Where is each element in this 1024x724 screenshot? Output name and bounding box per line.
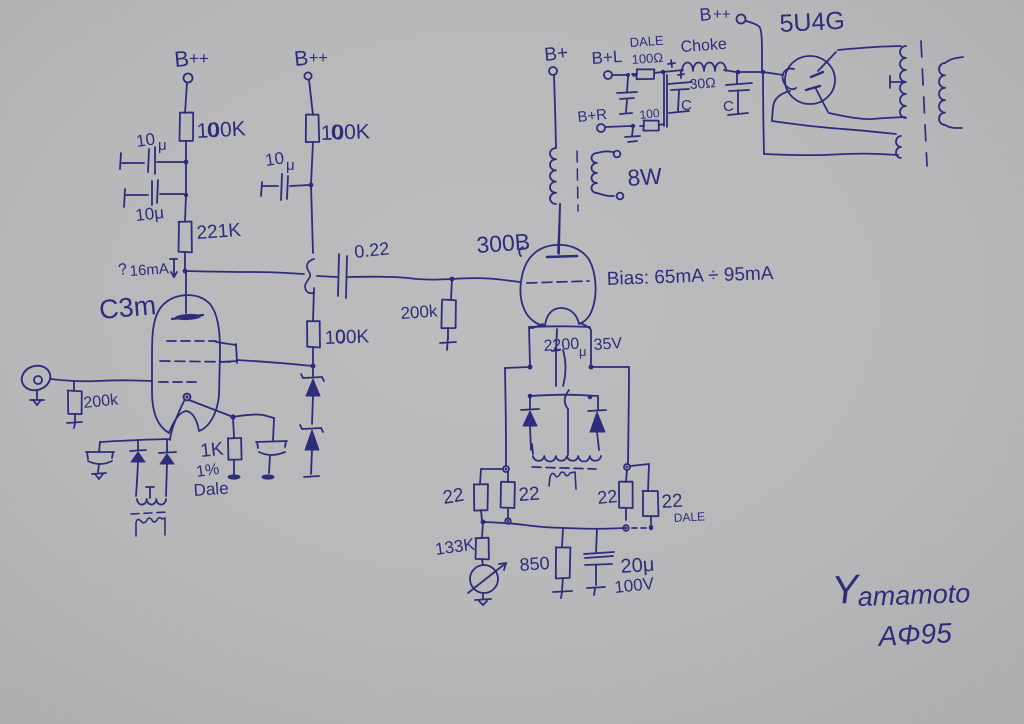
svg-text:C: C: [723, 98, 734, 115]
svg-text:++: ++: [189, 49, 209, 68]
svg-text:100: 100: [639, 106, 661, 122]
svg-text:0: 0: [335, 327, 346, 348]
svg-text:10: 10: [135, 130, 156, 151]
svg-text:1K: 1K: [199, 439, 225, 462]
svg-text:Dale: Dale: [193, 479, 229, 500]
svg-text:C: C: [681, 97, 692, 114]
svg-text:++: ++: [309, 50, 328, 67]
svg-text:B: B: [699, 4, 713, 25]
svg-text:5U4G: 5U4G: [779, 7, 846, 38]
svg-text:200k: 200k: [400, 301, 439, 323]
svg-text:++: ++: [713, 6, 731, 23]
svg-text:μ: μ: [158, 137, 167, 154]
svg-text:amamoto: amamoto: [857, 578, 971, 612]
svg-text:100K: 100K: [320, 120, 370, 145]
svg-text:2200: 2200: [543, 336, 580, 355]
svg-text:DALE: DALE: [673, 509, 705, 525]
svg-text:10: 10: [264, 149, 285, 170]
svg-text:22: 22: [518, 484, 541, 506]
svg-text:22: 22: [441, 485, 465, 509]
svg-text:μ: μ: [286, 157, 295, 174]
svg-text:B+R: B+R: [577, 106, 608, 126]
svg-text:100K: 100K: [324, 326, 369, 349]
svg-text:35V: 35V: [593, 335, 623, 354]
svg-text:22: 22: [596, 486, 618, 508]
svg-text:16mA: 16mA: [129, 260, 169, 280]
svg-text:0: 0: [207, 119, 219, 142]
svg-text:0.22: 0.22: [353, 238, 390, 262]
svg-text:300B: 300B: [476, 228, 531, 258]
svg-text:B+: B+: [543, 43, 569, 66]
svg-text:100K: 100K: [196, 117, 246, 143]
svg-text:DALE: DALE: [629, 33, 664, 50]
svg-text:B: B: [173, 46, 190, 72]
svg-text:B+L: B+L: [591, 47, 623, 68]
svg-text:0: 0: [331, 121, 343, 144]
svg-text:221K: 221K: [196, 220, 242, 244]
svg-text:C3m: C3m: [98, 290, 157, 325]
svg-text:B: B: [293, 47, 309, 71]
svg-text:AΦ95: AΦ95: [876, 617, 953, 652]
svg-text:100Ω: 100Ω: [631, 50, 664, 67]
svg-text:10μ: 10μ: [134, 203, 165, 225]
svg-text:Choke: Choke: [680, 36, 727, 56]
svg-text:8W: 8W: [627, 163, 664, 191]
svg-text:22: 22: [661, 491, 684, 513]
svg-text:30Ω: 30Ω: [689, 74, 716, 92]
svg-text:850: 850: [519, 553, 550, 575]
svg-text:μ: μ: [579, 344, 587, 359]
svg-text:1%: 1%: [195, 461, 220, 481]
